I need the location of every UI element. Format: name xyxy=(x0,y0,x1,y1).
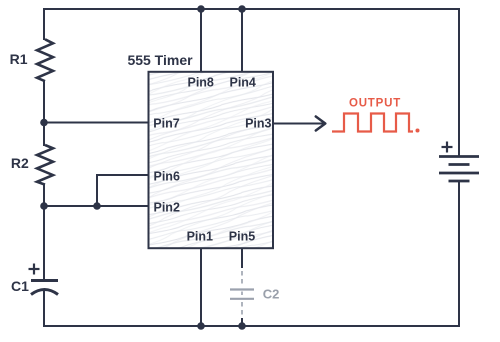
node: junction of left rail and pin7 wire xyxy=(40,119,48,127)
svg-text:Pin5: Pin5 xyxy=(229,229,255,243)
svg-text:555 Timer: 555 Timer xyxy=(127,52,193,68)
wire: pin5 dashed segment lower xyxy=(241,302,243,317)
wire: pin1 down to bottom rail xyxy=(200,248,202,326)
battery B1 plus sign xyxy=(442,142,453,153)
svg-text:C2: C2 xyxy=(263,286,280,301)
wire: left rail between R2 and C1 xyxy=(43,184,45,280)
wire: top rail from left rail to right rail xyxy=(43,8,460,10)
capacitor C1 top plate xyxy=(31,279,58,282)
svg-text:Pin3: Pin3 xyxy=(245,116,271,130)
wire: right rail lower segment from battery to bottom rail xyxy=(458,182,460,327)
output waveform period dot xyxy=(416,129,420,133)
node: junction pin1 wire / bottom rail xyxy=(197,322,205,330)
wire: pin6 wire with vertical drop to pin2 node xyxy=(97,175,149,206)
svg-text:Pin4: Pin4 xyxy=(229,76,255,90)
wire: pin2 wire from left rail into IC xyxy=(44,205,149,207)
svg-text:C1: C1 xyxy=(11,278,29,294)
wire: pin3 output arrow shaft xyxy=(274,123,323,125)
capacitor C2 bottom plate (ghost) xyxy=(230,298,254,300)
node: junction pin6 drop / pin2 wire xyxy=(93,202,101,210)
svg-text:Pin6: Pin6 xyxy=(154,170,180,184)
svg-text:Pin8: Pin8 xyxy=(187,76,213,90)
node: junction pin5 wire / bottom rail xyxy=(238,322,246,330)
wire: pin8 to top rail xyxy=(200,9,202,71)
wire: left rail below C1 to bottom rail xyxy=(43,290,45,327)
wire: pin5 dashed segment upper xyxy=(241,271,243,287)
output arrow head xyxy=(316,117,326,131)
wire: pin7 wire from left rail into IC xyxy=(44,122,150,124)
battery B1 plates xyxy=(439,157,479,182)
svg-text:Pin2: Pin2 xyxy=(154,201,180,215)
node: junction top rail / pin4 wire xyxy=(238,5,246,13)
wire: left rail between R1 and R2 xyxy=(43,81,45,147)
svg-text:Pin7: Pin7 xyxy=(153,116,179,130)
svg-text:OUTPUT: OUTPUT xyxy=(349,98,401,110)
svg-text:Pin1: Pin1 xyxy=(187,229,213,243)
wire: bottom rail xyxy=(43,325,460,327)
node: junction of left rail and pin2 wire xyxy=(40,202,48,210)
svg-text:R2: R2 xyxy=(11,155,29,171)
capacitor C1 curved bottom plate xyxy=(31,290,58,295)
svg-text:R1: R1 xyxy=(10,51,28,67)
wire: pin4 to top rail xyxy=(241,9,243,71)
capacitor C2 top plate (ghost) xyxy=(230,288,254,290)
node: junction top rail / pin8 wire xyxy=(197,5,205,13)
capacitor C1 (polarized) plus sign xyxy=(29,264,40,275)
wire: pin5 solid lower segment to bottom rail xyxy=(241,318,243,326)
wire: pin5 solid upper segment xyxy=(241,248,243,268)
wire: left rail top segment down to R1 xyxy=(43,8,45,40)
wire: dash between C2 plates xyxy=(241,292,243,298)
resistor R2 xyxy=(37,145,53,185)
IC U1: 555 timer body with sketch hatch fill xyxy=(149,72,274,248)
output square waveform xyxy=(332,114,413,132)
resistor R1 xyxy=(37,39,53,81)
wire: right rail upper segment down to battery xyxy=(458,8,460,156)
